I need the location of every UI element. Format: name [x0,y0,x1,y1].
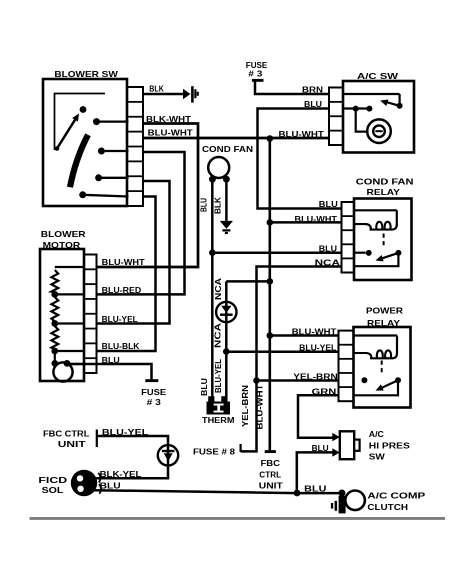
svg-text:BLOWER: BLOWER [41,229,86,239]
svg-text:BLU: BLU [319,245,337,254]
svg-text:BLU-WHT: BLU-WHT [295,215,338,224]
svg-text:BLU: BLU [304,484,326,493]
svg-text:BLK: BLK [149,85,164,94]
svg-text:BLU-YEL: BLU-YEL [214,359,223,393]
svg-text:UNIT: UNIT [58,440,86,449]
svg-text:THERM: THERM [202,416,235,425]
svg-text:BLOWER SW: BLOWER SW [54,69,119,79]
svg-text:POWER: POWER [366,306,403,316]
svg-text:BLU-WHT: BLU-WHT [102,258,145,267]
svg-text:HI PRES: HI PRES [369,441,411,450]
svg-text:CTRL: CTRL [259,471,281,480]
svg-text:SW: SW [369,453,386,462]
svg-text:BLU-YEL: BLU-YEL [299,344,336,353]
svg-text:# 3: # 3 [248,70,263,79]
svg-text:BLU-WHT: BLU-WHT [292,328,337,337]
svg-text:BLU: BLU [200,378,209,396]
svg-text:BLU-WHT: BLU-WHT [148,129,193,138]
svg-text:FUSE # 8: FUSE # 8 [193,448,236,457]
svg-text:GRN: GRN [312,387,337,396]
svg-text:COND FAN: COND FAN [356,177,414,187]
svg-text:RELAY: RELAY [367,318,400,328]
svg-text:BLU-BLK: BLU-BLK [102,342,140,351]
svg-text:COND FAN: COND FAN [202,144,253,154]
svg-text:BLU: BLU [200,198,209,212]
svg-text:BLU-YEL: BLU-YEL [102,428,149,437]
svg-text:FBC: FBC [261,459,281,468]
svg-text:YEL-BRN: YEL-BRN [293,373,338,382]
svg-text:BRN: BRN [302,86,323,95]
svg-text:BLK-YEL: BLK-YEL [100,470,142,479]
svg-text:NCA: NCA [214,278,223,300]
svg-text:NCA: NCA [214,323,223,348]
svg-text:MOTOR: MOTOR [43,240,81,250]
svg-text:# 3: # 3 [147,397,162,407]
svg-text:BLU-WHT: BLU-WHT [256,384,265,429]
svg-text:UNIT: UNIT [259,481,283,490]
svg-text:BLU: BLU [304,100,322,109]
svg-text:BLU-RED: BLU-RED [102,286,142,295]
svg-text:BLU-YEL: BLU-YEL [102,315,138,324]
svg-text:BLU: BLU [100,482,121,491]
svg-text:BLU-WHT: BLU-WHT [279,130,324,139]
svg-text:FICD: FICD [38,476,67,485]
svg-text:CLUTCH: CLUTCH [367,502,408,512]
svg-text:NCA: NCA [315,258,341,267]
svg-text:SOL: SOL [42,486,64,495]
svg-text:FUSE: FUSE [141,387,166,397]
svg-text:YEL-BRN: YEL-BRN [241,385,250,427]
svg-text:BLU: BLU [102,356,120,365]
svg-text:BLK: BLK [214,197,223,214]
svg-text:RELAY: RELAY [367,187,401,197]
svg-text:A/C COMP: A/C COMP [367,491,425,501]
svg-text:A/C SW: A/C SW [357,71,399,81]
svg-text:BLU: BLU [319,200,338,209]
svg-text:FBC CTRL: FBC CTRL [43,430,90,439]
svg-text:A/C: A/C [369,430,384,439]
svg-text:BLU: BLU [312,444,329,453]
svg-text:BLK-WHT: BLK-WHT [146,115,191,124]
